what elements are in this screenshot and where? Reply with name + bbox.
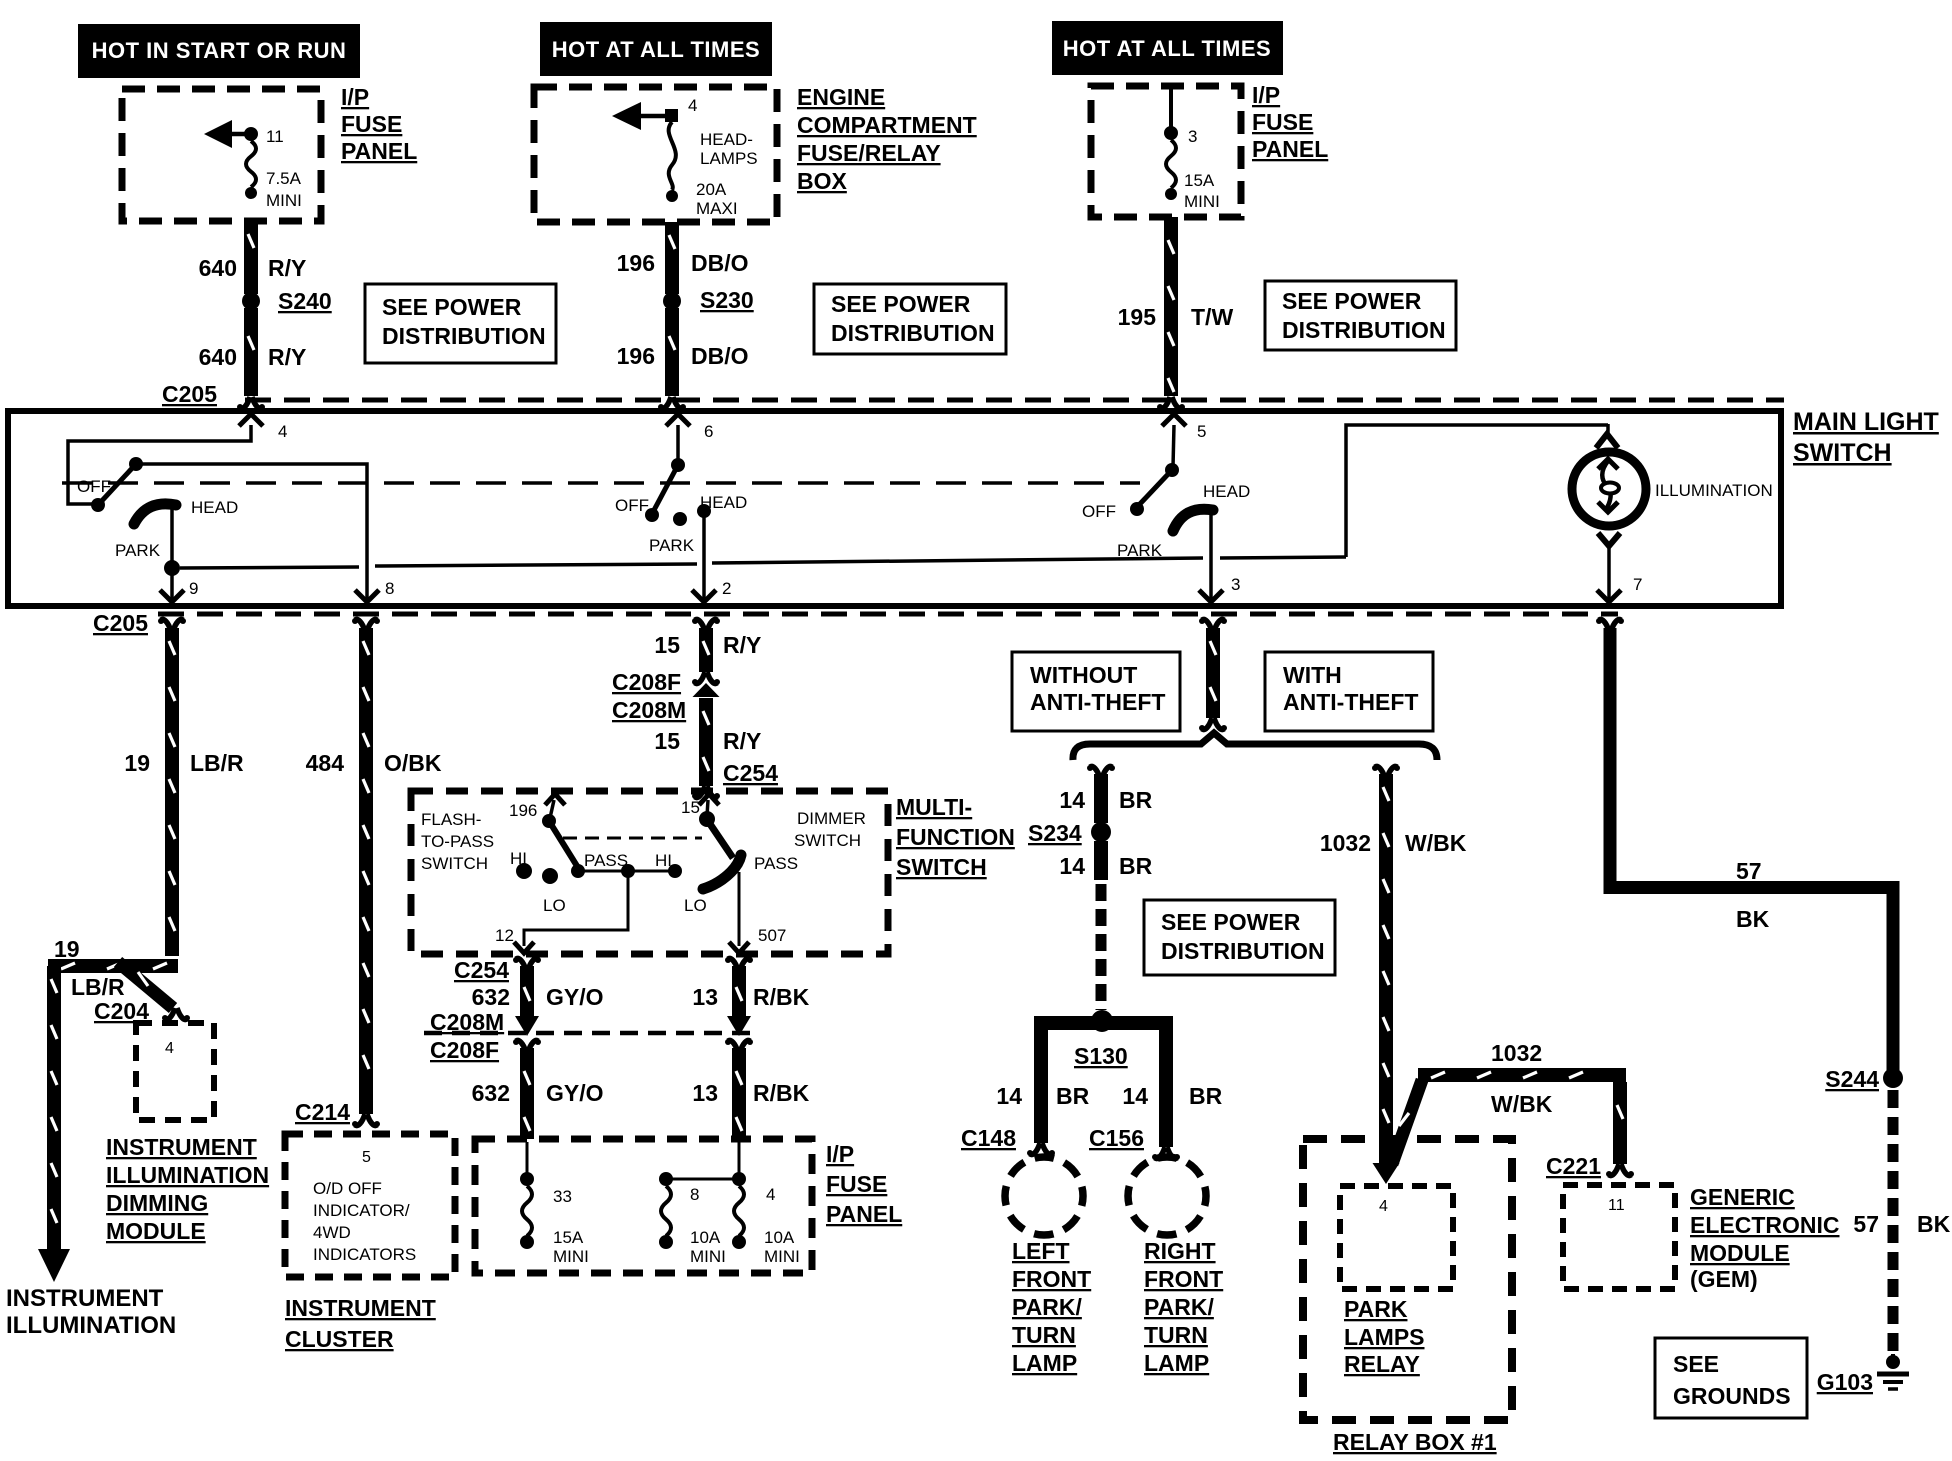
switch 1 HEAD wiper <box>115 498 238 576</box>
svg-text:507: 507 <box>758 926 786 945</box>
instrument illumination arrow <box>38 1249 70 1282</box>
svg-text:GY/O: GY/O <box>546 1080 604 1106</box>
svg-text:196: 196 <box>617 250 655 276</box>
svg-text:ENGINE: ENGINE <box>797 84 885 110</box>
svg-text:PARK/: PARK/ <box>1144 1294 1214 1320</box>
park bus wire <box>180 557 1346 568</box>
svg-text:3: 3 <box>1231 575 1240 594</box>
flash-to-pass pin 196 <box>509 794 565 828</box>
wire 196 DB/O lower <box>617 308 749 410</box>
fuse 3 15A MINI <box>1164 89 1220 211</box>
wire 196 DB/O upper <box>617 222 749 294</box>
svg-text:19: 19 <box>54 936 80 962</box>
svg-text:C221: C221 <box>1546 1153 1601 1179</box>
instrument illumination dimming module box <box>136 1023 214 1120</box>
svg-text:C205: C205 <box>162 381 217 407</box>
svg-text:GROUNDS: GROUNDS <box>1673 1383 1791 1409</box>
svg-text:MULTI-: MULTI- <box>896 794 972 820</box>
connector C214 <box>295 1099 380 1127</box>
instrument cluster box <box>285 1134 455 1277</box>
wire 57 BK <box>1604 628 1900 1071</box>
splice S230 <box>663 287 754 313</box>
fuse 4 HEADLAMPS 20A MAXI <box>612 96 758 218</box>
illumination lamp <box>1572 452 1773 526</box>
svg-text:PARK: PARK <box>649 536 695 555</box>
label LEFT FRONT PARK/TURN LAMP <box>1012 1238 1091 1376</box>
note box SEE GROUNDS <box>1655 1338 1807 1418</box>
wire 632 GY/O upper <box>472 957 604 1036</box>
label I/P FUSE PANEL (right) <box>1252 82 1328 162</box>
svg-text:13: 13 <box>692 1080 718 1106</box>
svg-text:SWITCH: SWITCH <box>1793 439 1892 467</box>
svg-text:TURN: TURN <box>1144 1322 1208 1348</box>
svg-text:640: 640 <box>199 344 237 370</box>
svg-text:TURN: TURN <box>1012 1322 1076 1348</box>
main light switch box <box>8 411 1781 606</box>
svg-text:PASS: PASS <box>754 854 798 873</box>
connector fork pin 9 wire top <box>158 618 186 631</box>
wire 19 branch elbow <box>48 936 178 1008</box>
svg-text:BR: BR <box>1119 853 1153 879</box>
svg-text:DB/O: DB/O <box>691 250 749 276</box>
svg-text:57: 57 <box>1853 1211 1879 1237</box>
connector C221 <box>1546 1153 1601 1179</box>
svg-text:HOT IN START OR RUN: HOT IN START OR RUN <box>92 38 347 63</box>
svg-text:HEAD: HEAD <box>700 493 747 512</box>
I/P fuse panel box (left) <box>122 89 321 221</box>
svg-text:(GEM): (GEM) <box>1690 1266 1758 1292</box>
svg-text:INSTRUMENT: INSTRUMENT <box>106 1134 257 1160</box>
svg-text:HOT AT ALL TIMES: HOT AT ALL TIMES <box>1063 36 1271 61</box>
svg-text:14: 14 <box>1122 1083 1148 1109</box>
svg-text:8: 8 <box>385 579 394 598</box>
svg-text:11: 11 <box>1608 1197 1625 1214</box>
wire 1032 W/BK horizontal to GEM <box>1392 1040 1634 1177</box>
switch 1 OFF contacts <box>77 457 143 512</box>
svg-text:4: 4 <box>766 1185 775 1204</box>
svg-text:INDICATORS: INDICATORS <box>313 1245 416 1264</box>
svg-text:15: 15 <box>681 798 700 817</box>
wire 19 LB/R <box>124 628 244 956</box>
wire 13 R/BK lower <box>692 1039 809 1139</box>
right front park/turn lamp <box>1128 1157 1206 1235</box>
fuse 8 10A MINI <box>659 1172 726 1266</box>
wire park bus to illumination lamp <box>1346 424 1618 557</box>
connector C205 bottom label <box>93 610 148 636</box>
svg-text:FUSE: FUSE <box>1252 109 1313 135</box>
svg-text:INSTRUMENT: INSTRUMENT <box>6 1285 164 1312</box>
relay feed arrow <box>1373 1163 1400 1184</box>
svg-text:LEFT: LEFT <box>1012 1238 1070 1264</box>
svg-text:SEE POWER: SEE POWER <box>382 294 522 320</box>
svg-text:DIMMING: DIMMING <box>106 1190 208 1216</box>
svg-text:RIGHT: RIGHT <box>1144 1238 1216 1264</box>
svg-text:DISTRIBUTION: DISTRIBUTION <box>382 323 546 349</box>
svg-text:HEAD: HEAD <box>191 498 238 517</box>
splice S240 <box>242 288 332 314</box>
wire 14 BR to C148 <box>961 1083 1090 1156</box>
svg-text:14: 14 <box>1059 787 1085 813</box>
svg-text:MAIN LIGHT: MAIN LIGHT <box>1793 408 1939 436</box>
svg-text:8: 8 <box>690 1185 699 1204</box>
svg-text:T/W: T/W <box>1191 304 1233 330</box>
switch 2 contacts <box>615 458 747 555</box>
left front park/turn lamp <box>1005 1157 1083 1235</box>
svg-text:15: 15 <box>654 728 680 754</box>
svg-text:LB/R: LB/R <box>71 974 125 1000</box>
svg-text:SEE POWER: SEE POWER <box>831 291 971 317</box>
pin 9 <box>160 568 198 602</box>
svg-text:ELECTRONIC: ELECTRONIC <box>1690 1212 1840 1238</box>
svg-text:O/BK: O/BK <box>384 750 442 776</box>
wire 484 O/BK <box>306 628 442 1114</box>
svg-text:C214: C214 <box>295 1099 350 1125</box>
svg-text:4: 4 <box>1379 1198 1388 1215</box>
svg-text:20A: 20A <box>696 180 727 199</box>
wire 57 BK dashed to ground <box>1853 1090 1950 1354</box>
svg-text:I/P: I/P <box>1252 82 1280 108</box>
label I/P FUSE PANEL (bottom) <box>826 1141 902 1227</box>
svg-text:FUSE: FUSE <box>341 111 402 137</box>
svg-text:BR: BR <box>1189 1083 1223 1109</box>
svg-text:MINI: MINI <box>764 1247 800 1266</box>
svg-text:FUSE: FUSE <box>826 1171 887 1197</box>
svg-text:3: 3 <box>1188 127 1197 146</box>
svg-text:INDICATOR/: INDICATOR/ <box>313 1201 410 1220</box>
svg-text:C208F: C208F <box>430 1037 499 1063</box>
connector fork pin 8 wire top <box>352 618 380 631</box>
svg-text:RELAY BOX #1: RELAY BOX #1 <box>1333 1429 1497 1455</box>
svg-text:12: 12 <box>495 926 514 945</box>
flash-to-pass contacts HI LO PASS <box>510 849 628 915</box>
svg-text:57: 57 <box>1736 858 1762 884</box>
svg-text:R/BK: R/BK <box>753 984 810 1010</box>
wire 195 T/W <box>1118 217 1234 410</box>
svg-text:ANTI-THEFT: ANTI-THEFT <box>1030 689 1165 715</box>
I/P fuse panel box (bottom) <box>475 1139 812 1273</box>
svg-text:ANTI-THEFT: ANTI-THEFT <box>1283 689 1418 715</box>
svg-text:PANEL: PANEL <box>826 1201 902 1227</box>
dimmer pin 15 <box>681 794 719 827</box>
wire 15 R/Y lower <box>654 683 761 786</box>
pin 5 <box>1162 414 1206 467</box>
pin 507 <box>729 872 786 953</box>
connector C254 (upper) <box>692 760 778 799</box>
svg-text:MINI: MINI <box>1184 192 1220 211</box>
svg-text:ILLUMINATION: ILLUMINATION <box>1655 481 1773 500</box>
pin 3 <box>1199 512 1240 602</box>
svg-text:7: 7 <box>1633 575 1642 594</box>
svg-text:LAMPS: LAMPS <box>700 149 758 168</box>
svg-text:BR: BR <box>1056 1083 1090 1109</box>
label GENERIC ELECTRONIC MODULE (GEM) <box>1690 1184 1840 1292</box>
svg-text:LAMPS: LAMPS <box>1344 1324 1425 1350</box>
label DIMMER SWITCH <box>794 809 866 850</box>
header HOT AT ALL TIMES (engine compartment) <box>540 22 772 76</box>
wire 14 BR lower (dashed) <box>1059 841 1152 1010</box>
svg-text:LO: LO <box>543 896 566 915</box>
svg-text:C208F: C208F <box>612 669 681 695</box>
svg-text:FUNCTION: FUNCTION <box>896 824 1015 850</box>
I/P fuse panel box (right) <box>1091 86 1241 217</box>
svg-text:BK: BK <box>1917 1211 1951 1237</box>
svg-text:4: 4 <box>165 1040 174 1057</box>
svg-text:LAMP: LAMP <box>1144 1350 1209 1376</box>
connector fork pin 3 wire top <box>1199 618 1227 631</box>
svg-text:RELAY: RELAY <box>1344 1351 1420 1377</box>
fuse 33 15A MINI <box>520 1142 589 1266</box>
svg-text:WITH: WITH <box>1283 662 1342 688</box>
svg-text:W/BK: W/BK <box>1491 1091 1553 1117</box>
svg-text:SWITCH: SWITCH <box>421 854 488 873</box>
wire 632 GY/O lower <box>472 1039 604 1139</box>
svg-text:LO: LO <box>684 896 707 915</box>
svg-text:9: 9 <box>189 579 198 598</box>
note box WITH ANTI-THEFT <box>1265 652 1433 731</box>
svg-text:HEAD-: HEAD- <box>700 130 753 149</box>
svg-text:GY/O: GY/O <box>546 984 604 1010</box>
svg-text:SEE POWER: SEE POWER <box>1282 288 1422 314</box>
svg-text:OFF: OFF <box>1082 502 1116 521</box>
svg-text:C254: C254 <box>723 760 778 786</box>
svg-text:R/Y: R/Y <box>723 632 761 658</box>
svg-text:196: 196 <box>617 343 655 369</box>
svg-text:FRONT: FRONT <box>1144 1266 1223 1292</box>
connector C205 dashed line (bottom) <box>158 612 1618 617</box>
relay box #1 <box>1303 1139 1512 1420</box>
splice S234 <box>1028 820 1111 846</box>
svg-text:HOT AT ALL TIMES: HOT AT ALL TIMES <box>552 37 760 62</box>
label O/D OFF INDICATOR / 4WD INDICATORS <box>313 1179 416 1264</box>
connector C254 (lower label) <box>454 957 509 983</box>
svg-text:C254: C254 <box>454 957 509 983</box>
wire 640 R/Y lower <box>199 308 307 410</box>
svg-text:I/P: I/P <box>826 1141 854 1167</box>
svg-text:PANEL: PANEL <box>341 138 417 164</box>
svg-text:PARK: PARK <box>115 541 161 560</box>
svg-text:1032: 1032 <box>1320 830 1371 856</box>
svg-text:SEE POWER: SEE POWER <box>1161 909 1301 935</box>
svg-text:4: 4 <box>688 96 697 115</box>
svg-text:LAMP: LAMP <box>1012 1350 1077 1376</box>
brace <box>1073 733 1437 760</box>
svg-text:R/Y: R/Y <box>268 255 306 281</box>
svg-text:S230: S230 <box>700 287 754 313</box>
flash-to-pass wiper <box>549 821 577 866</box>
svg-text:OFF: OFF <box>615 496 649 515</box>
svg-text:SWITCH: SWITCH <box>896 854 987 880</box>
connector C204 <box>94 998 190 1024</box>
svg-text:S234: S234 <box>1028 820 1082 846</box>
svg-text:FLASH-: FLASH- <box>421 810 481 829</box>
svg-text:PARK/: PARK/ <box>1012 1294 1082 1320</box>
label INSTRUMENT ILLUMINATION <box>6 1285 176 1339</box>
splice S244 <box>1825 1066 1903 1092</box>
label FLASH-TO-PASS SWITCH <box>421 810 494 873</box>
svg-text:LB/R: LB/R <box>190 750 244 776</box>
svg-text:DISTRIBUTION: DISTRIBUTION <box>831 320 995 346</box>
svg-text:4: 4 <box>278 422 287 441</box>
svg-text:S130: S130 <box>1074 1043 1128 1069</box>
connector C205 dashed line (top) <box>245 398 1784 403</box>
svg-text:13: 13 <box>692 984 718 1010</box>
note box SEE POWER DISTRIBUTION 1 <box>365 284 556 363</box>
ground G103 <box>1817 1354 1909 1395</box>
connector C208M/C208F labels (lower) <box>430 1009 504 1063</box>
svg-text:PARK: PARK <box>1117 541 1163 560</box>
svg-text:10A: 10A <box>764 1228 795 1247</box>
svg-text:SWITCH: SWITCH <box>794 831 861 850</box>
svg-text:C148: C148 <box>961 1125 1016 1151</box>
park lamps relay box <box>1340 1186 1453 1289</box>
fuse 4 10A MINI <box>666 1142 800 1266</box>
wire 14 BR upper <box>1059 765 1152 823</box>
svg-text:11: 11 <box>266 127 284 146</box>
svg-text:PASS: PASS <box>584 851 628 870</box>
svg-text:SEE: SEE <box>1673 1351 1719 1377</box>
svg-text:W/BK: W/BK <box>1405 830 1467 856</box>
svg-text:INSTRUMENT: INSTRUMENT <box>285 1295 436 1321</box>
splice S130 <box>1034 1010 1173 1147</box>
svg-text:DISTRIBUTION: DISTRIBUTION <box>1282 317 1446 343</box>
connector fork pin 7 wire top <box>1596 618 1624 631</box>
svg-text:DB/O: DB/O <box>691 343 749 369</box>
svg-text:BR: BR <box>1119 787 1153 813</box>
label MAIN LIGHT SWITCH <box>1793 408 1939 467</box>
wire 15 R/Y upper <box>654 628 761 685</box>
svg-text:CLUSTER: CLUSTER <box>285 1326 394 1352</box>
svg-text:S244: S244 <box>1825 1066 1879 1092</box>
label INSTRUMENT ILLUMINATION DIMMING MODULE <box>106 1134 269 1244</box>
svg-text:MODULE: MODULE <box>106 1218 206 1244</box>
connector C208 dashed line <box>424 1031 750 1036</box>
label ENGINE COMPARTMENT FUSE/RELAY BOX <box>797 84 977 194</box>
svg-text:10A: 10A <box>690 1228 721 1247</box>
wire from switch 1 OFF to pin 8 <box>136 464 394 602</box>
label I/P FUSE PANEL (left) <box>341 84 417 164</box>
svg-text:MINI: MINI <box>690 1247 726 1266</box>
pin 6 <box>666 414 713 462</box>
svg-text:5: 5 <box>1197 422 1206 441</box>
svg-text:MINI: MINI <box>266 191 302 210</box>
svg-text:1032: 1032 <box>1491 1040 1542 1066</box>
svg-text:15A: 15A <box>553 1228 584 1247</box>
label MULTI-FUNCTION SWITCH <box>896 794 1015 880</box>
svg-text:DIMMER: DIMMER <box>797 809 866 828</box>
svg-text:DISTRIBUTION: DISTRIBUTION <box>1161 938 1325 964</box>
svg-text:GENERIC: GENERIC <box>1690 1184 1795 1210</box>
svg-text:632: 632 <box>472 984 510 1010</box>
svg-text:MODULE: MODULE <box>1690 1240 1790 1266</box>
svg-text:7.5A: 7.5A <box>266 169 302 188</box>
svg-text:484: 484 <box>306 750 345 776</box>
svg-text:R/BK: R/BK <box>753 1080 810 1106</box>
svg-text:PANEL: PANEL <box>1252 136 1328 162</box>
svg-text:OFF: OFF <box>77 477 111 496</box>
svg-text:MINI: MINI <box>553 1247 589 1266</box>
wire 1032 W/BK vertical <box>1320 765 1467 1164</box>
wire 640 R/Y upper <box>199 221 307 294</box>
svg-text:G103: G103 <box>1817 1369 1873 1395</box>
svg-text:19: 19 <box>124 750 150 776</box>
svg-text:S240: S240 <box>278 288 332 314</box>
svg-text:33: 33 <box>553 1187 572 1206</box>
svg-text:195: 195 <box>1118 304 1157 330</box>
multi-function switch box <box>411 791 888 954</box>
svg-text:196: 196 <box>509 801 537 820</box>
header HOT IN START OR RUN <box>78 24 360 78</box>
dimmer wiper <box>684 821 798 915</box>
svg-text:6: 6 <box>704 422 713 441</box>
svg-text:O/D OFF: O/D OFF <box>313 1179 382 1198</box>
connector C205 top label <box>162 381 217 407</box>
label RELAY BOX #1 <box>1333 1429 1497 1455</box>
switch 3 HEAD wiper <box>1117 482 1250 560</box>
svg-text:640: 640 <box>199 255 237 281</box>
svg-text:HEAD: HEAD <box>1203 482 1250 501</box>
svg-text:4WD: 4WD <box>313 1223 351 1242</box>
note box SEE POWER DISTRIBUTION 4 <box>1144 900 1335 975</box>
svg-text:WITHOUT: WITHOUT <box>1030 662 1137 688</box>
wire 13 R/BK upper <box>692 957 809 1036</box>
pin 4 <box>68 414 287 504</box>
svg-text:R/Y: R/Y <box>268 344 306 370</box>
pin 7 <box>1597 533 1642 602</box>
pin 2 <box>692 517 731 602</box>
svg-text:632: 632 <box>472 1080 510 1106</box>
svg-text:COMPARTMENT: COMPARTMENT <box>797 112 977 138</box>
svg-text:PARK: PARK <box>1344 1296 1408 1322</box>
header HOT AT ALL TIMES (I/P fuse panel) <box>1052 21 1283 75</box>
svg-text:15: 15 <box>654 632 680 658</box>
svg-text:15A: 15A <box>1184 171 1215 190</box>
wire 19 left branch down <box>47 966 61 1249</box>
dimmer inner dashed link <box>563 837 702 840</box>
svg-text:ILLUMINATION: ILLUMINATION <box>6 1312 176 1339</box>
svg-text:ILLUMINATION: ILLUMINATION <box>106 1162 269 1188</box>
engine compartment fuse/relay box <box>534 87 777 222</box>
switch 3 OFF contacts <box>1082 463 1179 521</box>
svg-text:5: 5 <box>362 1149 371 1166</box>
connector C208F / C208M <box>612 669 686 723</box>
svg-text:BOX: BOX <box>797 168 848 194</box>
svg-text:MAXI: MAXI <box>696 199 738 218</box>
svg-text:FRONT: FRONT <box>1012 1266 1091 1292</box>
svg-text:C208M: C208M <box>612 697 686 723</box>
svg-text:TO-PASS: TO-PASS <box>421 832 494 851</box>
note box WITHOUT ANTI-THEFT <box>1012 652 1180 731</box>
svg-text:FUSE/RELAY: FUSE/RELAY <box>797 140 941 166</box>
svg-text:14: 14 <box>996 1083 1022 1109</box>
fuse 11 7.5A MINI <box>204 120 302 210</box>
generic electronic module box <box>1563 1185 1675 1289</box>
svg-text:2: 2 <box>722 579 731 598</box>
wire PASS to dimmer HI <box>578 851 682 878</box>
note box SEE POWER DISTRIBUTION 3 <box>1265 281 1456 350</box>
svg-text:C205: C205 <box>93 610 148 636</box>
pin 12 <box>495 871 628 953</box>
note box SEE POWER DISTRIBUTION 2 <box>814 284 1006 354</box>
svg-text:14: 14 <box>1059 853 1085 879</box>
label INSTRUMENT CLUSTER <box>285 1295 436 1352</box>
label RIGHT FRONT PARK/TURN LAMP <box>1144 1238 1223 1376</box>
svg-text:I/P: I/P <box>341 84 369 110</box>
wire from pin 3 down to brace <box>1199 628 1227 731</box>
svg-text:C156: C156 <box>1089 1125 1144 1151</box>
svg-text:R/Y: R/Y <box>723 728 761 754</box>
switch inner dashed line <box>62 481 1140 485</box>
svg-text:BK: BK <box>1736 906 1770 932</box>
